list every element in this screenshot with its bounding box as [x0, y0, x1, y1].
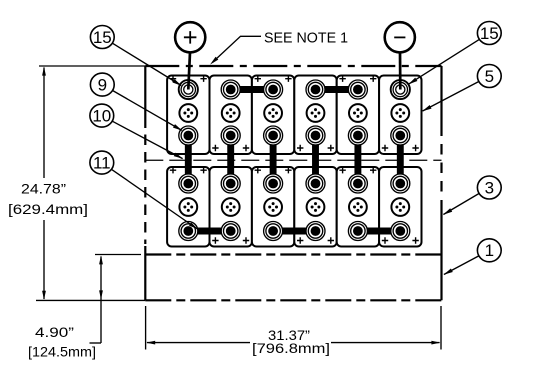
battery cell T2	[210, 76, 252, 155]
balloon callout 15 (left)	[90, 26, 114, 49]
inter-cell connector bar top row (cells T4-T5)	[316, 86, 358, 93]
terminal posts battery B5	[348, 174, 367, 241]
terminal posts battery B4	[306, 174, 325, 241]
balloon callout 15 (left) leader	[112, 43, 181, 86]
battery cell B6	[379, 167, 421, 247]
positive terminal symbol and lead wire	[175, 22, 205, 89]
balloon callout 9 leader	[113, 91, 183, 131]
balloon callout 11	[90, 151, 114, 174]
inter-cell connector bar bottom row (cells B3-B4)	[273, 228, 315, 235]
dimension 31.37in dimension line with arrows	[146, 341, 440, 345]
battery cell B4	[294, 167, 336, 247]
dimension text 24.78" [629.4mm]	[8, 181, 88, 217]
svg-text:24.78”: 24.78”	[21, 181, 66, 197]
enclosure left border	[144, 66, 146, 128]
terminal posts battery T2	[221, 80, 240, 145]
terminal posts battery T3	[264, 80, 283, 145]
dimension text 31.37" [796.8mm]	[252, 327, 330, 356]
terminal posts battery T1	[179, 80, 198, 145]
svg-text:5: 5	[485, 67, 494, 86]
shelf line inside enclosure	[145, 253, 441, 255]
balloon callout 15 (right)	[477, 22, 501, 45]
balloon callout 11 leader	[112, 169, 198, 229]
dimension text 4.90" [124.5mm]	[28, 324, 96, 359]
dimension 4.90in extension line	[95, 254, 141, 256]
battery cell T6	[379, 76, 421, 155]
balloon callout 3 leader	[443, 194, 479, 215]
battery cell B3	[252, 167, 294, 247]
terminal posts battery B1	[179, 174, 198, 241]
svg-text:9: 9	[98, 76, 107, 95]
mid row center line	[145, 159, 441, 161]
dimension 24.78in dimension line with arrows	[42, 67, 46, 300]
battery cell B5	[337, 167, 379, 247]
svg-text:[796.8mm]: [796.8mm]	[252, 340, 330, 356]
balloon callout 3	[477, 176, 501, 199]
battery cell T3	[252, 76, 294, 155]
enclosure bottom border	[145, 299, 441, 301]
balloon callout 5 leader	[422, 82, 479, 112]
inter-cell connector bar bottom row (cells B5-B6)	[358, 228, 400, 235]
inter-cell connector bar bottom row (cells B1-B2)	[188, 228, 230, 235]
svg-text:[124.5mm]: [124.5mm]	[28, 344, 96, 360]
battery cell T4	[294, 76, 336, 155]
svg-text:3: 3	[485, 178, 494, 197]
battery cell B1	[167, 167, 209, 247]
enclosure top border (phantom line)	[145, 65, 441, 67]
battery cell T1	[167, 76, 209, 155]
terminal posts battery T4	[306, 80, 325, 145]
svg-text:SEE NOTE 1: SEE NOTE 1	[264, 30, 348, 46]
negative terminal symbol and lead wire	[385, 22, 415, 89]
terminal posts battery B3	[264, 174, 283, 241]
balloon callout 10 leader	[112, 121, 183, 159]
SEE NOTE 1 note with leader	[210, 30, 348, 64]
battery cell B2	[210, 167, 252, 247]
dimension 31.37in extension lines	[146, 306, 441, 350]
svg-text:1: 1	[485, 241, 494, 260]
balloon callout 9	[90, 73, 114, 96]
svg-text:15: 15	[93, 28, 112, 47]
terminal posts battery T5	[348, 80, 367, 145]
svg-text:10: 10	[92, 107, 111, 126]
terminal posts battery T6	[391, 80, 410, 145]
balloon callout 10	[90, 104, 114, 127]
svg-text:4.90”: 4.90”	[35, 324, 74, 340]
svg-text:15: 15	[480, 24, 499, 43]
inter-cell connector bar top row (cells T2-T3)	[231, 86, 273, 93]
inter-tier connector bars (vertical)	[188, 136, 400, 184]
dimension 24.78in extension lines	[36, 66, 145, 300]
balloon callout 15 (right) leader	[408, 39, 479, 84]
terminal posts battery B2	[221, 174, 240, 241]
dimension 4.90in dimension line with arrows and hook leader	[90, 255, 103, 343]
balloon callout 1	[477, 239, 501, 262]
balloon callout 1 leader	[444, 256, 479, 275]
svg-text:11: 11	[93, 154, 111, 173]
svg-text:[629.4mm]: [629.4mm]	[8, 201, 88, 217]
terminal posts battery B6	[391, 174, 410, 241]
enclosure right border	[440, 66, 442, 136]
battery cell T5	[337, 76, 379, 155]
balloon callout 5	[477, 65, 501, 88]
